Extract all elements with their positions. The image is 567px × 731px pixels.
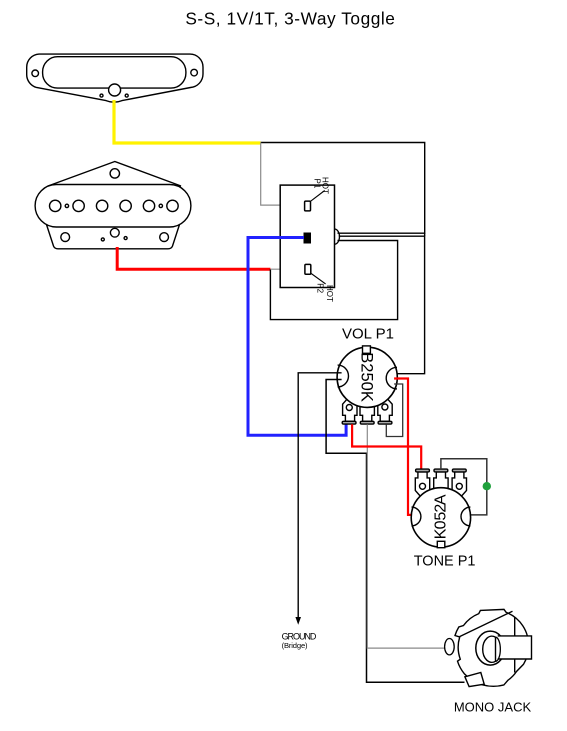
- volume pot lug 2: [360, 399, 374, 424]
- wire joint: [424, 233, 426, 236]
- wire: volume left notch to ground arrow: [298, 373, 341, 618]
- mono jack body: [455, 609, 529, 686]
- svg-text:P1: P1: [313, 179, 322, 189]
- tone pot left notch: [412, 507, 421, 526]
- wire red: volume lug 1 to tone lug 1: [352, 424, 421, 469]
- pointer line HOT P2: [311, 273, 326, 284]
- wire gray: yellow corner to switch terminal 1: [261, 143, 305, 206]
- bridge pickup B1: [35, 162, 191, 249]
- switch common lug arc: [335, 229, 340, 244]
- svg-text:K: K: [432, 528, 449, 539]
- volume pot lug 1: [342, 396, 357, 424]
- wire: top loop box (neck to switch output): [261, 143, 425, 234]
- jack diagonal chord: [460, 611, 513, 636]
- wire: tone lug 2 to capacitor to tone right notch: [441, 459, 487, 515]
- svg-text:0: 0: [432, 520, 449, 529]
- svg-text:S-S, 1V/1T, 3-Way Toggle: S-S, 1V/1T, 3-Way Toggle: [185, 8, 395, 28]
- volume pot lug 3: [378, 396, 392, 424]
- jack tip lug: [445, 639, 455, 655]
- wire gray: red corner to switch terminal 3: [270, 268, 305, 270]
- wire: volume lug 3 loop to right notch: [386, 384, 402, 437]
- wire: volume left notch lower tick to jack sleeve: [326, 380, 464, 683]
- wire: switch output to volume right notch: [339, 236, 425, 374]
- wire red: volume right notch to tone left notch: [394, 379, 415, 515]
- svg-text:(Bridge): (Bridge): [282, 641, 308, 650]
- svg-text:HOT: HOT: [325, 285, 334, 302]
- wire red (bridge hot): [117, 247, 270, 269]
- pointer line HOT P1: [311, 191, 325, 202]
- jack inner ball: [483, 636, 496, 662]
- tone pot lug 3: [452, 469, 466, 498]
- svg-text:B250K: B250K: [358, 352, 376, 402]
- switch terminal 3: [305, 264, 311, 274]
- svg-text:A: A: [432, 494, 449, 505]
- jack outer ring: [476, 631, 505, 665]
- tone pot value A250K: [432, 494, 449, 539]
- tone pot shaft notch: [437, 541, 445, 547]
- switch SW1 (3-way): [280, 185, 334, 287]
- svg-text:VOL P1: VOL P1: [342, 326, 394, 343]
- svg-text:2: 2: [432, 504, 449, 513]
- jack inner lens: [496, 637, 501, 661]
- volume pot left notch: [338, 365, 349, 387]
- wire: bottom loop box (bridge to switch output): [270, 241, 397, 320]
- jack right tab rect: [498, 636, 532, 659]
- svg-text:TONE P1: TONE P1: [414, 553, 476, 569]
- tone pot lug 2: [434, 469, 448, 492]
- wire gray: volume lug 2 to jack tip: [367, 424, 451, 648]
- volume pot P1 body: [337, 347, 397, 407]
- volume pot right notch: [386, 367, 397, 389]
- jack right chord: [514, 618, 516, 673]
- switch terminal 2 (selected): [304, 233, 311, 243]
- jack sleeve tab: [465, 673, 484, 687]
- svg-text:P2: P2: [316, 283, 325, 293]
- svg-text:GROUND: GROUND: [282, 631, 317, 641]
- tone pot right notch: [461, 507, 470, 526]
- capacitor (green disc): [483, 482, 491, 490]
- svg-text:MONO JACK: MONO JACK: [454, 700, 532, 715]
- ground arrowhead: [295, 617, 301, 625]
- tone pot P1 body: [411, 488, 470, 547]
- volume pot shaft notch: [363, 346, 371, 353]
- switch terminal 1: [305, 201, 311, 211]
- wire blue (switch terminal 2 to volume lug 1): [248, 238, 346, 436]
- wire yellow (neck hot): [114, 100, 261, 143]
- tone pot lug 1: [415, 469, 429, 498]
- neck pickup N1: [27, 54, 203, 102]
- svg-text:5: 5: [432, 512, 449, 521]
